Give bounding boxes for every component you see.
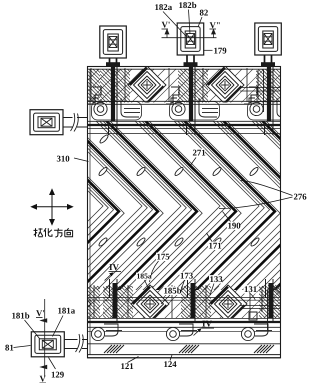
label 185b — [163, 287, 181, 295]
drain contact hatch (bottom unit 1) — [104, 345, 124, 353]
label 173 — [180, 272, 193, 280]
svg-text:IV: IV — [109, 262, 120, 272]
svg-text:173: 173 — [180, 271, 194, 281]
label 133 — [209, 275, 222, 283]
TFT (bottom unit 3) — [241, 324, 272, 341]
gate pad 182 (left) — [100, 26, 127, 58]
TFT (top unit 3) — [244, 98, 298, 120]
gate line 121 (top) — [88, 88, 280, 134]
svg-text:V": V" — [210, 20, 221, 30]
contact 179 blob 3 — [261, 62, 275, 67]
wire: pad to data line 2 — [187, 55, 194, 67]
contact 179 blob 2 — [184, 62, 198, 67]
svg-text:190: 190 — [228, 221, 242, 231]
svg-text:81: 81 — [5, 343, 14, 353]
gate pad 82 (right) — [255, 23, 281, 55]
wire break marks (bottom left) — [78, 336, 83, 352]
data line pair 2 — [187, 67, 196, 323]
right edge storage stub (bottom, 131) — [249, 290, 268, 330]
label 190 — [227, 222, 240, 230]
TFT (bottom unit 2) — [166, 324, 197, 341]
capacitor frame lines (top band) — [47, 68, 320, 102]
storage electrode diamond (top unit 1) — [128, 66, 166, 104]
svg-text:182a: 182a — [155, 2, 173, 12]
storage electrode diamond (bottom unit 2, 133/185b) — [209, 285, 247, 323]
section line V-V" (top) — [162, 30, 217, 38]
svg-text:185a: 185a — [137, 272, 152, 281]
storage electrode diamond (top unit 3) — [284, 66, 320, 104]
svg-text:121: 121 — [121, 361, 134, 371]
storage contact hook (top unit 2) — [171, 87, 182, 104]
svg-text:271: 271 — [193, 148, 206, 158]
panel bottom edge — [88, 354, 281, 356]
section marker IV (lower) — [194, 319, 215, 336]
svg-text:175: 175 — [157, 252, 171, 262]
svg-text:276: 276 — [294, 192, 308, 202]
storage electrode diamond (bottom unit 1, 133/185b) — [131, 285, 169, 323]
wire break marks (left middle) — [73, 115, 78, 131]
label 171 — [208, 242, 221, 250]
svg-text:V: V — [40, 374, 47, 383]
storage electrode diamond (bottom unit 0, 133/185b) — [53, 285, 91, 323]
svg-text:V': V' — [36, 308, 45, 318]
drain contact hatch (bottom unit 2) — [179, 345, 199, 353]
svg-text:171: 171 — [209, 241, 222, 251]
gate pad 82/182a/182b — [177, 23, 204, 55]
svg-text:133: 133 — [210, 274, 224, 284]
svg-text:181b: 181b — [12, 311, 30, 321]
wire: pad to data line 1 — [110, 58, 117, 67]
TFT (top unit 1) — [88, 98, 142, 120]
panel outline 310 — [88, 67, 281, 358]
svg-text:IV: IV — [202, 319, 213, 329]
contact 179 blob 1 — [106, 62, 120, 67]
right edge storage stub (top) — [258, 70, 264, 112]
label 185a — [136, 273, 151, 280]
storage electrode diamond (top unit 2) — [206, 66, 244, 104]
svg-text:129: 129 — [51, 370, 65, 380]
caption: polarization direction (4 CJK glyphs drawn as strokes) — [34, 228, 73, 237]
svg-text:310: 310 — [57, 154, 71, 164]
gate line 124 (bottom) — [88, 298, 280, 344]
storage contact hook (top unit 3) — [249, 87, 260, 104]
wire: pad to data line 3 — [265, 55, 272, 67]
svg-text:179: 179 — [214, 46, 228, 56]
storage electrode diamond (bottom unit 3, 133/185b) — [287, 285, 320, 323]
svg-text:185b: 185b — [164, 286, 182, 296]
TFT (top unit 2) — [166, 98, 220, 120]
pad common pad (left) — [30, 110, 63, 135]
section marker IV (upper) — [105, 262, 122, 281]
label 271 — [192, 149, 205, 157]
section line V'-V (bottom pad) — [41, 299, 47, 377]
svg-text:182b: 182b — [179, 0, 197, 10]
LC director ellipses (271) — [98, 134, 260, 247]
polarization direction cross arrows — [32, 190, 73, 225]
TFT (bottom unit 1) — [91, 324, 122, 341]
drain contact hatch (bottom unit 3) — [254, 345, 274, 353]
storage capacitor band (bottom) — [47, 286, 320, 319]
data line pair 1 — [109, 67, 118, 323]
svg-text:82: 82 — [200, 8, 209, 18]
svg-text:V': V' — [162, 20, 171, 30]
wire: pad 81 to panel — [65, 340, 88, 349]
storage contact hook (top unit 1) — [93, 87, 104, 104]
pad gate pad 81/181a/181b — [31, 332, 64, 357]
label 175 — [156, 253, 169, 261]
data line pair 3 — [265, 67, 274, 323]
storage capacitor band (top, 82 row) — [46, 69, 319, 103]
svg-text:131: 131 — [244, 284, 257, 294]
label 131 — [244, 285, 257, 293]
capacitor frame lines (bottom band) — [50, 285, 320, 318]
storage electrode diamond (top unit 0) — [50, 66, 88, 104]
svg-text:181a: 181a — [58, 306, 76, 316]
wire: pad 310-row to panel — [63, 118, 88, 128]
